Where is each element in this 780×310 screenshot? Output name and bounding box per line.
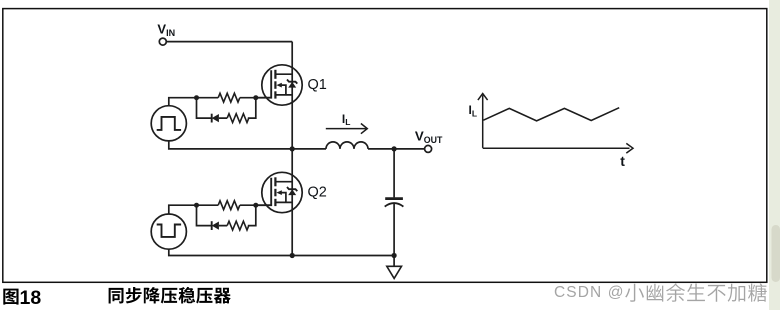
ground xyxy=(393,256,395,267)
scrollbar track xyxy=(769,0,780,310)
wire main vertical rail xyxy=(291,42,293,256)
scrollbar thumb xyxy=(772,225,780,282)
capacitor C1 xyxy=(385,197,403,200)
wire V1 top to network xyxy=(169,98,197,106)
junction dot gate xyxy=(253,95,258,100)
pulse source V1 xyxy=(151,106,186,141)
wire switch node to inductor xyxy=(292,148,326,150)
svg-text:Q2: Q2 xyxy=(308,184,327,200)
wire capacitor to ground rail xyxy=(393,204,395,256)
node VOUT terminal xyxy=(425,145,432,152)
junction switch node xyxy=(290,146,295,151)
wire V2 bottom to ground rail xyxy=(169,249,292,255)
wire V1 bottom to switch node xyxy=(169,141,292,149)
svg-text:Q1: Q1 xyxy=(308,77,327,93)
watermark CSDN @小幽余生不加糖 xyxy=(554,283,768,303)
wire gate network lower branch xyxy=(197,98,256,118)
wire gate network top branch xyxy=(197,97,256,99)
resistor lower branch xyxy=(227,221,249,230)
transistor Q1 xyxy=(262,65,302,105)
waveform y-axis xyxy=(478,94,488,148)
wire inductor to output node xyxy=(368,148,425,150)
svg-text:CSDN @: CSDN @ xyxy=(554,284,625,301)
wire ground rail xyxy=(292,255,394,257)
junction dot left xyxy=(194,95,199,100)
junction ground rail left xyxy=(290,253,295,258)
resistor lower branch xyxy=(227,114,249,123)
resistor top branch xyxy=(218,93,240,102)
junction output node xyxy=(392,146,397,151)
pulse source V2 xyxy=(151,214,186,249)
wire gate network top branch xyxy=(197,204,256,206)
wire gate network lower branch xyxy=(197,205,256,225)
caption figure number 图 18 xyxy=(3,289,18,305)
junction dot gate xyxy=(253,203,258,208)
diode lower branch (cathode left) xyxy=(211,114,213,123)
wire V2 top to network xyxy=(169,205,197,214)
resistor top branch xyxy=(218,201,240,210)
node VIN terminal xyxy=(159,38,166,45)
svg-text:18: 18 xyxy=(20,287,42,309)
junction dot left xyxy=(194,203,199,208)
svg-text:IL: IL xyxy=(469,103,478,118)
wire output node to capacitor xyxy=(393,149,395,198)
svg-text:VIN: VIN xyxy=(157,21,175,38)
wire VIN to drain rail xyxy=(166,41,292,43)
transistor Q2 xyxy=(262,172,302,212)
svg-text:VOUT: VOUT xyxy=(415,128,443,145)
junction ground node xyxy=(392,253,397,258)
waveform inductor current trace xyxy=(483,108,619,121)
inductor L1 xyxy=(326,142,368,149)
diode lower branch (cathode left) xyxy=(211,221,213,230)
waveform x-axis xyxy=(483,143,633,153)
caption title 同步降压稳压器 xyxy=(109,288,124,304)
svg-text:IL: IL xyxy=(342,112,351,127)
svg-text:t: t xyxy=(620,153,625,169)
